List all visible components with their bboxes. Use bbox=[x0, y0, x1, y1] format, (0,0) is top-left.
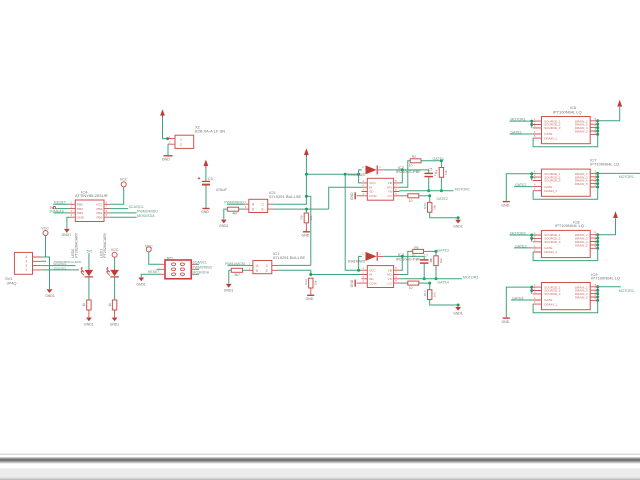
node junction lower supply bbox=[357, 269, 360, 272]
wire JP1 MOSI/SDA bbox=[196, 273, 199, 275]
gate driver IC3 box bbox=[362, 266, 400, 288]
resistor R12 pulldown at IC1 bbox=[304, 278, 318, 295]
svg-text:GND1: GND1 bbox=[84, 322, 94, 326]
svg-text:C3: C3 bbox=[208, 176, 214, 181]
svg-text:JP4Q: JP4Q bbox=[7, 280, 17, 285]
node junction GATE1 pulldown bbox=[440, 159, 443, 162]
svg-text:1: 1 bbox=[25, 268, 27, 272]
svg-text:IPT100N04L LQ: IPT100N04L LQ bbox=[590, 161, 619, 166]
wire IC9 drain MOTOR2 out bbox=[598, 286, 621, 288]
svg-text:GND1: GND1 bbox=[453, 224, 463, 228]
svg-text:RESET: RESET bbox=[54, 201, 67, 205]
svg-text:1k: 1k bbox=[108, 303, 112, 307]
ground GND bar below IC9 bbox=[501, 318, 510, 324]
svg-text:VCC: VCC bbox=[111, 248, 119, 252]
svg-text:DRAIN_1: DRAIN_1 bbox=[544, 189, 557, 193]
wire SV1 pin2 net bbox=[41, 260, 45, 263]
svg-text:C7: C7 bbox=[424, 254, 428, 258]
node junction IC5 output bbox=[305, 208, 308, 211]
svg-text:GND: GND bbox=[501, 320, 509, 324]
wire D1 cathode to C5 bbox=[384, 169, 429, 171]
svg-text:R13: R13 bbox=[423, 203, 427, 209]
svg-text:GND1: GND1 bbox=[110, 322, 120, 326]
node junction IC6 source1 bbox=[530, 120, 533, 123]
wire R6 to GATE3 bbox=[424, 250, 437, 252]
diode LED2 bbox=[106, 267, 119, 277]
status bar raised divider bbox=[0, 457, 640, 463]
node junction IC7 source1 bbox=[530, 172, 533, 175]
wire R7 to GATE4 bbox=[419, 282, 430, 284]
svg-text:GND1: GND1 bbox=[45, 294, 55, 298]
svg-text:MOTOR1: MOTOR1 bbox=[510, 118, 525, 122]
wire GATE3 to IC8 gate bbox=[514, 247, 533, 249]
wire JP1 PWM0/MISO bbox=[196, 268, 199, 270]
wire resistor to GND LED1 bbox=[88, 310, 90, 317]
supply VCC circle for SV1 bbox=[41, 226, 49, 235]
wire supply arrow down bbox=[305, 156, 307, 174]
node 3V0 circle on pin2 net bbox=[50, 206, 56, 210]
wire SV1 pin3 net bbox=[41, 265, 75, 267]
node junction IC9 source1 bbox=[530, 286, 533, 289]
wire GATE4 to IC9 gate bbox=[511, 299, 533, 301]
wire MOSI/SDA net from IC4 bbox=[110, 216, 137, 218]
svg-text:GND1: GND1 bbox=[224, 289, 234, 293]
wire upper supply to diode anode bbox=[359, 170, 362, 174]
svg-text:MOTOR1: MOTOR1 bbox=[619, 175, 634, 179]
svg-text:GATE3: GATE3 bbox=[437, 249, 449, 253]
wire IC6 drain loop to pin5 bbox=[533, 134, 598, 146]
wire IC4 GND pin to ground bbox=[67, 217, 70, 228]
wire VCC to X2 pin1 bbox=[163, 117, 169, 139]
optocoupler IC5 box bbox=[244, 199, 274, 212]
svg-text:10k: 10k bbox=[444, 170, 448, 175]
wire PWM0/MISO net from IC4 bbox=[110, 212, 137, 214]
resistor R14 gate4 pulldown bbox=[423, 283, 458, 307]
connector X2 bbox=[168, 135, 194, 149]
wire IC8 drain loop to pin5 bbox=[533, 248, 598, 260]
wire VS MOTOR1 bbox=[399, 190, 453, 192]
node drain dots IC7 bbox=[596, 172, 599, 189]
svg-text:4k7: 4k7 bbox=[234, 273, 240, 277]
wire IC9 source bus bbox=[531, 287, 533, 294]
node drain dots IC9 bbox=[596, 285, 599, 302]
svg-text:R12: R12 bbox=[304, 279, 308, 285]
diode D1 bootstrap bbox=[362, 165, 384, 174]
svg-text:GND: GND bbox=[350, 192, 354, 200]
resistor R4 gate pulldown bbox=[435, 161, 449, 191]
svg-text:GND1: GND1 bbox=[453, 312, 463, 316]
svg-text:SOURCE_3: SOURCE_3 bbox=[544, 240, 561, 244]
wire IC6 drain bus bbox=[597, 121, 599, 135]
wire IC9 drain bus bbox=[597, 287, 599, 301]
status bar bottom edge bbox=[0, 477, 640, 480]
mosfet module IC6 box bbox=[533, 117, 599, 144]
supply arrow VBAT for drivers bbox=[304, 148, 309, 157]
svg-text:MOTOR1: MOTOR1 bbox=[455, 187, 470, 191]
wire resistor to GND LED2 bbox=[114, 310, 116, 317]
wire IC8 drain to supply arrow bbox=[598, 218, 616, 234]
wire VS MOTOR2 bbox=[399, 278, 461, 280]
wire JP1 GND pin bbox=[141, 274, 160, 277]
status bar divider top line bbox=[0, 454, 640, 455]
wire IC7 source bus bbox=[531, 174, 533, 181]
svg-text:GND1: GND1 bbox=[62, 233, 72, 237]
node junction GATE3 pulldown bbox=[435, 250, 438, 253]
ground GND1 arrow at R5 bbox=[219, 220, 229, 229]
svg-text:COM: COM bbox=[369, 194, 377, 198]
svg-text:ATTINY85-20SUR: ATTINY85-20SUR bbox=[75, 193, 108, 198]
svg-text:GATE2: GATE2 bbox=[436, 197, 448, 201]
svg-text:GATE1: GATE1 bbox=[510, 130, 522, 134]
wire IN from IC5 bbox=[329, 187, 362, 209]
node junction VB branch bbox=[401, 168, 404, 171]
wire riser to lower diode anode bbox=[359, 256, 362, 270]
svg-text:COM: COM bbox=[369, 281, 377, 285]
node junction IC6 source2 bbox=[530, 123, 533, 126]
svg-text:MOTOR2: MOTOR2 bbox=[463, 275, 478, 279]
svg-text:VCC: VCC bbox=[120, 178, 128, 182]
ground GND1 arrow below JP1 bbox=[136, 278, 146, 287]
svg-text:GND: GND bbox=[306, 297, 314, 301]
supply arrow VCC for X2 bbox=[160, 109, 165, 117]
resistor R9 pulldown at IC5 bbox=[300, 209, 314, 232]
svg-text:GATE2: GATE2 bbox=[515, 183, 527, 187]
svg-text:10: 10 bbox=[409, 286, 413, 290]
wire IC5 pin C to supply bbox=[274, 196, 307, 204]
node junction C5 on VS bbox=[427, 189, 430, 192]
svg-text:MOSI/SDA: MOSI/SDA bbox=[137, 214, 155, 218]
wire VB riser lower bbox=[399, 256, 402, 270]
ground GND rotated at COM lower bbox=[350, 279, 361, 287]
wire LED1 cathode to resistor bbox=[88, 278, 90, 301]
svg-text:10k: 10k bbox=[433, 292, 437, 297]
svg-text:R4: R4 bbox=[435, 170, 439, 174]
svg-text:67L0291 BULLSE: 67L0291 BULLSE bbox=[269, 194, 301, 199]
wire LO to R3 bbox=[399, 195, 407, 197]
resistor R5 at IC5 input bbox=[227, 207, 244, 215]
wire IC1 pin C to supply vertical bbox=[278, 264, 311, 266]
wire IC9 drain loop to pin5 bbox=[533, 300, 598, 312]
ground GND rotated at COM bbox=[350, 192, 361, 200]
capacitor C5 bootstrap bbox=[424, 168, 436, 191]
svg-text:1N4148WS: 1N4148WS bbox=[348, 260, 366, 264]
ground GND below R12 bbox=[306, 295, 315, 301]
mosfet module IC9 box bbox=[533, 283, 599, 310]
wire LED2 anode bbox=[114, 257, 116, 270]
wire VCC to JP1 pin bbox=[149, 252, 161, 264]
svg-text:LO: LO bbox=[388, 194, 393, 198]
ground GND below R9 bbox=[301, 232, 310, 238]
node junction at GND drop lower bbox=[457, 304, 460, 307]
svg-text:DRAIN_5: DRAIN_5 bbox=[575, 182, 588, 186]
wire SV1 pin4 net bbox=[41, 269, 79, 271]
wire upper supply to VCC pin bbox=[359, 174, 362, 183]
wire R3 to GATE2 bbox=[419, 195, 430, 197]
wire IC4 pin3 net bbox=[53, 212, 69, 214]
wire IC7 sources to GND bbox=[506, 174, 531, 201]
svg-text:C5: C5 bbox=[428, 168, 432, 172]
ground GND bar below IC7 bbox=[501, 202, 510, 208]
wire IC7 drain MOTOR1 out bbox=[598, 172, 640, 174]
wire IC4 VCC pin to supply bbox=[110, 187, 124, 204]
wire arrow to C3 bbox=[205, 167, 207, 180]
svg-text:GATE4: GATE4 bbox=[437, 280, 449, 284]
wire LED2 cathode to resistor bbox=[114, 278, 116, 301]
ground GND1 arrow below IC4 bbox=[62, 229, 72, 237]
supply VCC circle for IC4 bbox=[120, 178, 128, 187]
wire IC1 pin E output bbox=[278, 270, 362, 274]
svg-text:DRAIN_5: DRAIN_5 bbox=[575, 243, 588, 247]
wire R5 to GND bbox=[224, 209, 228, 219]
IC IC4 ATtiny85 box bbox=[70, 200, 110, 222]
resistor R1 at IC1 input bbox=[231, 268, 248, 277]
wire GATE2 to IC7 gate bbox=[514, 186, 533, 188]
svg-text:DRAIN_5: DRAIN_5 bbox=[575, 130, 588, 134]
wire R2 to GATE1 bbox=[421, 160, 441, 162]
node junction R8 on VS bbox=[435, 277, 438, 280]
wire HO to gate resistor lower bbox=[399, 251, 412, 274]
svg-text:DRAIN_1: DRAIN_1 bbox=[544, 250, 557, 254]
svg-text:SOURCE_3: SOURCE_3 bbox=[544, 292, 561, 296]
optocoupler IC1 box bbox=[248, 261, 278, 274]
svg-text:VCC: VCC bbox=[145, 244, 153, 248]
connector SV1 box bbox=[14, 252, 41, 274]
svg-text:R6: R6 bbox=[414, 246, 418, 250]
node junction IC1 output bbox=[309, 273, 312, 276]
node junction R4 on VS bbox=[440, 189, 443, 192]
svg-text:VCC: VCC bbox=[41, 226, 49, 230]
svg-text:GND1: GND1 bbox=[136, 282, 146, 286]
supply VCC circle for JP1 bbox=[145, 244, 153, 252]
svg-text:PT2026ACARV: PT2026ACARV bbox=[75, 232, 79, 258]
svg-text:SCK/SCL: SCK/SCL bbox=[54, 266, 68, 270]
diode D2 bootstrap bbox=[362, 252, 384, 261]
mosfet module IC7 box bbox=[533, 169, 599, 196]
svg-text:MOSI/SDA: MOSI/SDA bbox=[193, 271, 210, 275]
wire supply branch to lower driver bbox=[345, 174, 361, 270]
svg-text:PWM0/MISO: PWM0/MISO bbox=[224, 201, 244, 205]
wire IC4 pin2 net bbox=[56, 208, 70, 210]
wire C3 to GND bbox=[205, 186, 207, 208]
svg-text:R8: R8 bbox=[429, 258, 433, 262]
wire GATE1 to IC6 gate bbox=[510, 133, 533, 135]
supply arrow at IC6 bbox=[617, 100, 622, 107]
ground GND1 arrow below SV1 bbox=[45, 289, 55, 298]
wire JP1 SCA/SCL bbox=[196, 263, 199, 265]
svg-text:10k: 10k bbox=[439, 258, 443, 263]
svg-text:SOURCE_3: SOURCE_3 bbox=[544, 179, 561, 183]
svg-text:PWM0/MISO: PWM0/MISO bbox=[193, 266, 213, 270]
capacitor C3 polarized bbox=[198, 177, 210, 190]
svg-text:1N4148WS: 1N4148WS bbox=[348, 173, 366, 177]
resistor R13 gate2 pulldown bbox=[423, 196, 458, 220]
svg-text:GATE4: GATE4 bbox=[512, 296, 524, 300]
node junction at GND drop bbox=[457, 216, 460, 219]
wire VCC to SV1 pin1 bbox=[41, 236, 45, 257]
svg-text:GND: GND bbox=[301, 233, 309, 237]
wire supply rail horizontal bbox=[306, 173, 358, 175]
wire RESET to JP1 bbox=[157, 268, 161, 270]
svg-text:LO: LO bbox=[388, 281, 393, 285]
svg-text:RESET: RESET bbox=[148, 270, 159, 274]
svg-text:470uF: 470uF bbox=[216, 187, 228, 192]
svg-text:DRAIN_1: DRAIN_1 bbox=[544, 136, 557, 140]
capacitor C7 bootstrap bbox=[420, 254, 432, 279]
svg-text:DRAIN_5: DRAIN_5 bbox=[575, 296, 588, 300]
svg-text:GND: GND bbox=[201, 210, 209, 214]
svg-text:10: 10 bbox=[409, 164, 413, 168]
ground GND1 arrow upper driver bbox=[453, 220, 463, 229]
svg-text:62B-XA-A LF SN: 62B-XA-A LF SN bbox=[195, 129, 225, 134]
svg-text:PWM1/MOSI: PWM1/MOSI bbox=[225, 262, 245, 266]
diode LED1 bbox=[80, 267, 93, 277]
wire PWM0 input to IC5 pin1 bbox=[227, 203, 244, 205]
svg-text:5V0: 5V0 bbox=[87, 250, 93, 254]
svg-text:R9: R9 bbox=[300, 215, 304, 219]
node drain dots IC8 bbox=[596, 233, 599, 250]
svg-text:10: 10 bbox=[411, 254, 415, 258]
wire PWM1 input to IC1 pin1 bbox=[228, 264, 249, 266]
svg-text:GND1: GND1 bbox=[219, 224, 229, 228]
svg-text:2: 2 bbox=[180, 143, 182, 147]
svg-text:SCA/SCL: SCA/SCL bbox=[193, 261, 208, 265]
resistor R3 gate low bbox=[408, 194, 419, 203]
svg-text:IR2104S-PBF: IR2104S-PBF bbox=[396, 256, 421, 261]
svg-text:MOTOR2: MOTOR2 bbox=[510, 231, 525, 235]
supply arrow at IC8 bbox=[613, 211, 618, 218]
svg-text:3V/MEAS: 3V/MEAS bbox=[49, 209, 64, 213]
ground GND1 arrow below LED1 bbox=[84, 318, 94, 327]
svg-text:1: 1 bbox=[180, 137, 182, 141]
svg-text:10k: 10k bbox=[433, 204, 437, 209]
status bar area bbox=[0, 468, 640, 477]
resistor R10 LED1 bbox=[82, 300, 91, 310]
node junction at X2 pin1 bbox=[166, 137, 169, 140]
wire IC7 drain loop to pin5 bbox=[533, 187, 598, 199]
wire MOTOR1 to IC6 sources bbox=[510, 121, 532, 128]
svg-text:DRAIN_1: DRAIN_1 bbox=[544, 302, 557, 306]
node junction supply IC5 bbox=[305, 195, 308, 198]
node junction C7 on VS bbox=[423, 277, 426, 280]
node drain dots IC6 bbox=[596, 119, 599, 136]
ground GND1 arrow at R1 bbox=[224, 284, 234, 293]
wire X2 pin2 to GND bbox=[167, 144, 169, 155]
svg-text:10: 10 bbox=[409, 199, 413, 203]
svg-text:PB0: PB0 bbox=[96, 215, 102, 219]
svg-text:IPT100N04L LQ: IPT100N04L LQ bbox=[591, 276, 620, 281]
node junction IC7 source2 bbox=[530, 176, 533, 179]
wire IC6 drain to supply arrow bbox=[598, 107, 620, 121]
svg-text:JP1: JP1 bbox=[166, 255, 174, 260]
node junction IC9 source2 bbox=[530, 289, 533, 292]
supply arrow VBAT above C3 bbox=[204, 160, 209, 168]
svg-text:IPT100N04L LQ: IPT100N04L LQ bbox=[553, 110, 582, 115]
svg-text:R2: R2 bbox=[412, 155, 416, 159]
wire SCA/SCL net from IC4 bbox=[110, 208, 128, 210]
node junction GATE4 pulldown bbox=[428, 282, 431, 285]
node supply junction left bbox=[305, 173, 308, 176]
svg-text:GND: GND bbox=[501, 203, 509, 207]
resistor R7 gate low bbox=[408, 281, 419, 290]
node junction IC8 source2 bbox=[530, 237, 533, 240]
svg-text:GND: GND bbox=[350, 279, 354, 287]
wire SV1 pin1 to GND drop bbox=[46, 257, 50, 289]
svg-text:1k: 1k bbox=[82, 303, 86, 307]
wire HO to gate resistor bbox=[399, 161, 410, 187]
ground GND below C3 bbox=[201, 209, 210, 215]
wire IC7 drain bus bbox=[597, 173, 599, 187]
mosfet module IC8 box bbox=[533, 230, 599, 257]
node junction IC8 source1 bbox=[530, 234, 533, 237]
wire LED1 anode bbox=[88, 253, 90, 270]
svg-text:GND: GND bbox=[77, 215, 85, 219]
svg-text:4k7: 4k7 bbox=[232, 212, 238, 216]
node supply junction right bbox=[357, 173, 360, 176]
ground GND below X2 bbox=[162, 145, 173, 162]
svg-text:GND: GND bbox=[162, 158, 170, 162]
wire VB riser bbox=[399, 170, 402, 183]
wire RESET net on IC4 pin1 bbox=[53, 203, 69, 205]
wire IC9 sources to GND bbox=[506, 287, 531, 317]
resistor R8 gate pulldown bbox=[429, 251, 443, 278]
svg-text:IPT100N04L LQ: IPT100N04L LQ bbox=[555, 223, 584, 228]
ground GND1 arrow below LED2 bbox=[110, 318, 120, 327]
wire IC5 pin E output bbox=[274, 208, 329, 210]
ground GND1 arrow lower driver bbox=[453, 307, 463, 316]
gate driver IC2 box bbox=[362, 178, 400, 200]
node junction GATE2 pulldown bbox=[428, 194, 431, 197]
wire IC8 drain bus bbox=[597, 235, 599, 249]
svg-text:MOTOR2: MOTOR2 bbox=[619, 289, 634, 293]
resistor R11 LED2 bbox=[108, 300, 117, 310]
svg-text:PT2026ACARV: PT2026ACARV bbox=[103, 232, 107, 258]
resistor R6 gate bbox=[411, 246, 423, 258]
svg-text:R14: R14 bbox=[423, 290, 427, 296]
wire LO to R7 bbox=[399, 282, 407, 284]
svg-text:10k: 10k bbox=[314, 280, 318, 285]
supply VCC circle for LED2 bbox=[111, 248, 119, 257]
wire supply down to IC5 collector node bbox=[306, 174, 310, 265]
pin header JP1 bbox=[161, 260, 197, 279]
wire R1 to GND bbox=[229, 270, 232, 283]
svg-text:67L0291 BULLSE: 67L0291 BULLSE bbox=[273, 255, 305, 260]
svg-text:SOURCE_3: SOURCE_3 bbox=[544, 126, 561, 130]
wire MOTOR2 to IC8 sources bbox=[510, 235, 532, 242]
node junction VB branch lower bbox=[401, 255, 404, 258]
svg-text:GATE3: GATE3 bbox=[515, 244, 527, 248]
node supply junction mid bbox=[344, 173, 347, 176]
resistor R2 gate bbox=[409, 155, 421, 167]
wire D2 cathode to C7 bbox=[384, 255, 424, 257]
